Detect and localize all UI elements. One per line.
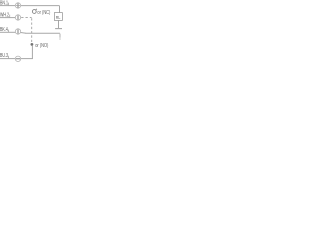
terminal circle output 2: [15, 15, 20, 20]
load box: [54, 13, 62, 21]
svg-text:or (NO): or (NO): [35, 42, 49, 49]
label tick pin 1: [7, 3, 9, 6]
terminal circle minus supply: [15, 56, 20, 61]
wire corner down stub: [59, 34, 61, 38]
wire BU.3 left: [0, 58, 15, 60]
label tick pin 4: [7, 30, 9, 33]
terminal circle output 1: [15, 29, 20, 34]
dashed wire WH.2 option: [21, 17, 31, 19]
label tick pin 3: [7, 56, 9, 59]
terminal circle plus supply: [15, 3, 20, 8]
NC option symbol: [32, 10, 36, 14]
wire BN.1 left: [0, 5, 15, 7]
wire BU.3 right: [21, 58, 33, 60]
dashed vertical option link: [31, 18, 33, 43]
wire WH.2: [0, 17, 15, 19]
wire corner down to load: [59, 6, 61, 13]
wire vertical to minus row: [31, 46, 33, 59]
label tick pin 2: [9, 15, 11, 18]
svg-text:RL: RL: [56, 15, 61, 21]
wire BN.1 right: [21, 5, 60, 7]
minus rail bar: [55, 28, 62, 30]
svg-text:or (NC): or (NC): [37, 10, 50, 17]
wire BK.4 left: [0, 31, 15, 33]
wire BK.4 right: [21, 32, 26, 35]
junction dot NO option: [31, 43, 34, 46]
wire below load: [58, 20, 60, 28]
